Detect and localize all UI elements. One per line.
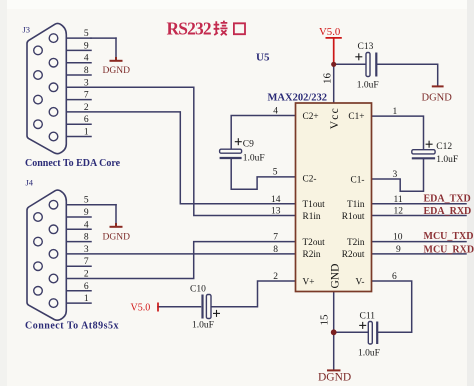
svg-text:DGND: DGND	[422, 92, 453, 103]
svg-text:V+: V+	[303, 277, 315, 287]
svg-text:6: 6	[84, 115, 89, 125]
svg-text:R2in: R2in	[303, 250, 321, 260]
svg-text:R1out: R1out	[342, 212, 365, 222]
svg-text:1.0uF: 1.0uF	[192, 321, 214, 331]
svg-text:4: 4	[273, 107, 278, 117]
svg-text:V5.0: V5.0	[131, 303, 151, 314]
svg-text:1: 1	[393, 107, 398, 117]
svg-text:5: 5	[273, 168, 278, 178]
svg-text:1: 1	[84, 294, 89, 304]
svg-text:MAX202/232: MAX202/232	[268, 93, 328, 104]
svg-text:V5.0: V5.0	[319, 26, 340, 38]
svg-text:J3: J3	[23, 25, 31, 35]
svg-text:T2out: T2out	[303, 238, 326, 248]
svg-text:13: 13	[271, 207, 281, 217]
svg-text:9: 9	[84, 41, 89, 51]
svg-text:C2+: C2+	[303, 112, 319, 122]
svg-text:C9: C9	[243, 140, 254, 150]
svg-text:3: 3	[84, 78, 89, 88]
svg-text:4: 4	[84, 54, 89, 64]
svg-text:7: 7	[84, 91, 89, 101]
svg-text:R1in: R1in	[303, 212, 321, 222]
svg-text:EDA_RXD: EDA_RXD	[424, 206, 472, 217]
svg-text:C1-: C1-	[351, 175, 365, 185]
svg-text:J4: J4	[26, 178, 34, 188]
svg-text:MCU_TXD: MCU_TXD	[424, 231, 474, 242]
svg-text:5: 5	[84, 196, 89, 206]
svg-text:11: 11	[394, 195, 403, 205]
svg-text:T1out: T1out	[303, 200, 326, 210]
svg-text:2: 2	[84, 103, 89, 113]
svg-text:MCU_RXD: MCU_RXD	[424, 245, 474, 256]
svg-text:C13: C13	[358, 42, 374, 52]
svg-text:DGND: DGND	[103, 66, 131, 76]
svg-text:C11: C11	[360, 312, 376, 322]
svg-text:V-: V-	[356, 277, 365, 287]
svg-text:1.0uF: 1.0uF	[436, 155, 458, 165]
svg-text:C12: C12	[436, 142, 452, 152]
svg-text:3: 3	[84, 245, 89, 255]
svg-text:9: 9	[396, 245, 401, 255]
svg-text:GND: GND	[330, 264, 342, 289]
svg-text:15: 15	[319, 314, 331, 326]
svg-text:8: 8	[84, 66, 89, 76]
svg-text:1.0uF: 1.0uF	[358, 349, 380, 359]
svg-text:Connect To At89s5x: Connect To At89s5x	[25, 321, 119, 332]
svg-text:1.0uF: 1.0uF	[357, 81, 379, 91]
svg-text:Connect To EDA Core: Connect To EDA Core	[25, 158, 121, 169]
svg-text:3: 3	[393, 170, 398, 180]
svg-text:2: 2	[273, 272, 278, 282]
svg-text:R2out: R2out	[342, 250, 365, 260]
svg-text:10: 10	[393, 233, 403, 243]
svg-text:9: 9	[84, 208, 89, 218]
svg-text:C10: C10	[190, 285, 206, 295]
svg-text:Vcc: Vcc	[329, 107, 341, 129]
svg-text:1.0uF: 1.0uF	[243, 154, 265, 164]
svg-text:C1+: C1+	[348, 112, 364, 122]
svg-text:U5: U5	[256, 52, 270, 64]
svg-text:7: 7	[273, 233, 278, 243]
svg-text:8: 8	[84, 233, 89, 243]
svg-text:14: 14	[271, 195, 281, 205]
svg-text:2: 2	[84, 270, 89, 280]
svg-text:RS232: RS232	[167, 18, 211, 38]
svg-text:6: 6	[84, 282, 89, 292]
svg-text:7: 7	[84, 257, 89, 267]
svg-text:1: 1	[84, 128, 89, 138]
svg-text:12: 12	[394, 207, 404, 217]
svg-text:C2-: C2-	[303, 175, 317, 185]
svg-text:4: 4	[84, 220, 89, 230]
svg-text:T2in: T2in	[347, 238, 365, 248]
svg-text:DGND: DGND	[318, 372, 351, 384]
svg-text:DGND: DGND	[103, 233, 131, 243]
svg-text:EDA_TXD: EDA_TXD	[424, 194, 471, 205]
svg-text:8: 8	[273, 245, 278, 255]
svg-text:T1in: T1in	[347, 200, 365, 210]
svg-text:5: 5	[84, 29, 89, 39]
svg-text:16: 16	[322, 73, 334, 85]
svg-text:6: 6	[392, 272, 397, 282]
